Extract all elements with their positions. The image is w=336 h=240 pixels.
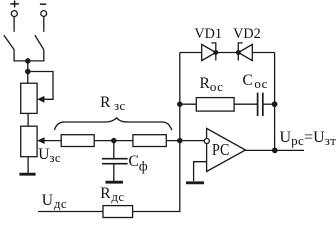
wire potentiometer wiper to Rzs [44,140,61,142]
capacitor Cf stem top [113,141,115,159]
switch blade left [4,35,14,50]
label Cf [129,153,149,171]
wire from minus terminal [43,16,45,32]
node Cf junction dot [112,139,116,143]
wire Roc to Coc [234,103,258,105]
capacitor Coc right plate [262,93,264,116]
wire Uds input line [38,211,103,213]
capacitor Cf bottom plate [102,163,128,165]
node Roc junction dot [178,102,182,106]
wire Rzs to op-amp input [166,140,204,142]
ground under op-amp input [186,181,204,184]
wire diode loop top right [252,52,274,54]
diode VD2 cathode bar [238,43,242,61]
label VD2 [233,26,261,43]
ground under potentiometer [19,173,35,176]
wire between rheostat and potentiometer [27,114,29,127]
resistor Rzs right half [133,135,166,147]
op-amp PC triangle [207,128,246,171]
ground under Cf [106,181,124,184]
label Coc [243,72,268,90]
diode VD1 cathode bar [211,43,215,61]
resistor Roc [196,98,234,112]
wire down to potentiometer [27,61,29,84]
node VD2 dot [237,51,241,55]
terminal circle minus [41,11,47,17]
node summing junction dot [178,139,182,143]
wire joining switches [13,60,44,62]
wire left switch down [13,50,15,62]
wire Roc from bus [180,103,197,105]
wire main summing bus vertical [179,53,181,212]
label Uzs [38,146,61,164]
node output dot [273,148,277,152]
label Uds [42,192,67,210]
wire potentiometer to ground [27,157,29,173]
label VD1 [194,26,222,43]
wire non-inverting input to ground [194,162,207,181]
label Rzs [100,94,126,112]
arrowhead rheostat wiper [37,96,44,103]
wire Rds to bus [133,211,181,213]
node VD1 dot [214,51,218,55]
terminal minus sign [40,3,46,5]
terminal plus sign [10,1,19,8]
arrowhead potentiometer wiper [37,137,44,144]
node Coc junction dot [272,102,276,106]
potentiometer body [21,126,37,157]
wire right switch down [43,50,45,62]
junction dot B [26,69,30,73]
wire feedback right vertical [274,53,276,151]
wire diode loop top left [180,52,202,54]
op-amp inverting input circle [204,139,209,144]
label Upc=Uzt [280,129,336,147]
capacitor Cf stem bottom [113,164,115,181]
wire rheostat wiper loop [28,72,53,100]
resistor Rds [103,206,133,218]
label Rds [100,185,124,203]
wire from plus terminal [13,17,15,32]
capacitor Coc left plate [257,93,259,116]
junction dot A [26,59,30,63]
wire between Rzs halves [94,140,133,142]
label PC in op-amp [212,140,229,160]
wire Coc to right bus [263,103,275,105]
diode VD1 triangle [202,44,216,60]
resistor R1 rheostat body [21,83,37,113]
label Roc [200,75,224,93]
capacitor Cf top plate [102,158,128,160]
wire between diodes [216,52,239,54]
brace over Rzs [55,118,172,130]
wire op-amp output [246,149,305,151]
terminal circle plus [11,11,17,17]
diode VD2 triangle [238,44,252,60]
switch blade right [35,35,44,50]
resistor Rzs left half [61,135,94,147]
